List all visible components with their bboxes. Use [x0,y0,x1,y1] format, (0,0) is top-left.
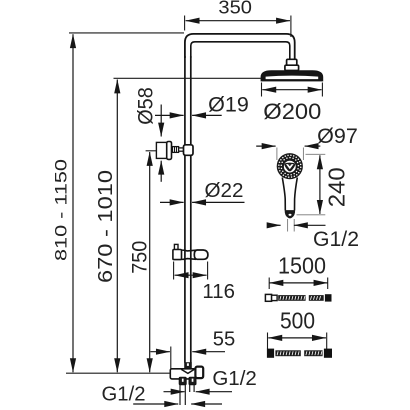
svg-text:670 - 1010: 670 - 1010 [95,170,117,283]
valve bottom nut right slit [192,379,194,382]
dimension 1500 arrow line [269,282,327,284]
hand shower holder middle top line [182,249,197,252]
shower arm inner contour [191,42,290,60]
hand shower handle tip [285,210,295,218]
svg-text:116: 116 [202,281,235,303]
hand shower holder middle bottom line [182,258,197,261]
overhead shower head top dome (dark) [261,71,322,81]
hose 1500 left fitting [265,294,271,301]
hose 500 left cap [267,349,274,358]
extension line Ø200 left [261,83,263,97]
main riser pipe right edge [190,56,192,363]
hand shower logo dark triangle [284,163,295,172]
overhead shower head bottom line [261,79,322,81]
dimension 55 right arrow [192,351,225,353]
bracket clip hatch 2 [176,147,178,153]
hand shower holder cup [194,250,208,259]
svg-text:G1/2: G1/2 [102,384,146,406]
hand shower tip highlight [289,214,292,216]
extension line 810-1150 top [69,32,184,34]
bracket rod bottom line [172,150,185,152]
svg-text:55: 55 [213,329,236,351]
dimension 240 extension bottom [297,214,326,216]
dimension 750 vertical line [149,152,151,372]
extension line 55 [170,347,172,369]
dimension row2 right arrow [191,403,222,405]
bracket clip [172,147,178,153]
dimension 55 left arrow [150,351,170,353]
valve body V-notch [181,369,194,373]
bracket slider block on pipe [184,145,194,156]
dimension 350 arrow line [186,20,290,22]
shower arm outer contour [185,34,295,60]
hand shower holder pin [174,244,178,249]
svg-text:1500: 1500 [278,253,326,279]
svg-text:Ø97: Ø97 [317,124,358,148]
tick 1500 left [268,278,270,290]
extension line Ø97 right [302,148,304,161]
svg-text:Ø200: Ø200 [263,99,321,124]
extension line 670-1010 top [114,77,262,79]
hand shower handle right edge [295,178,298,211]
hand shower holder left block [173,250,182,260]
hand shower center plate [284,161,296,173]
hand shower head disc [277,153,303,179]
bottom tube right line a [189,385,191,392]
valve bottom nut left [179,377,186,384]
extension line 116 right [207,262,209,280]
bracket rod top line [172,147,185,149]
dimension 810-1150 vertical line [72,34,74,372]
dimension row1 left arrow [164,391,185,393]
dimension Ø19 right arrow [192,114,222,116]
hose 1500 corrugated segment A [278,295,305,301]
hand shower spray dots outer ring [278,155,301,178]
tick 1500 right [327,278,329,290]
svg-text:Ø58: Ø58 [133,87,157,125]
dimension Ø58 up arrow [160,161,162,182]
extension line 116 left [173,262,175,280]
bottom tube left line a [179,385,181,405]
valve body [170,369,195,379]
shower head connector nut lower [285,65,299,70]
valve bottom nut right [189,377,196,384]
dimension 240 extension top [306,153,326,155]
extension line G1/2 handle left [287,219,289,232]
valve inlet nut [184,362,192,368]
valve inlet nut slit [187,363,189,366]
svg-text:500: 500 [280,308,315,334]
svg-text:240: 240 [323,167,349,207]
main riser pipe left edge [184,56,186,363]
hose 1500 corrugated segment B [309,295,324,301]
dimension G1/2 handle left arrow [270,224,281,226]
svg-text:G1/2: G1/2 [313,228,359,251]
hose 500 corrugated segment A [275,350,300,356]
svg-text:350: 350 [218,0,252,18]
dimension G1/2 handle right arrow [294,224,326,226]
hose 500 right cap [324,349,332,358]
extension line Ø200 right [321,83,323,97]
svg-text:Ø22: Ø22 [205,180,244,202]
dimension 500 arrow line [268,337,326,339]
dimension 116 arrow line [175,274,207,276]
dimension Ø200 arrow line [262,89,321,91]
dimension Ø97 right arrow [305,145,321,147]
bottom reference line [66,372,170,374]
bottom tube right line b [193,385,195,392]
tick 500 left [267,333,269,350]
svg-text:G1/2: G1/2 [212,367,257,390]
tick 500 right [326,333,328,350]
hose 500 corrugated segment B [304,350,322,356]
dimension Ø22 left arrow [160,201,184,203]
valve side outlet [195,367,203,379]
dimension 240 vertical line [319,155,321,214]
valve bottom nut left slit [182,379,184,382]
wall bracket body [156,142,167,158]
extension line 750 at bracket [146,150,157,152]
overhead shower head side band (white) [266,76,319,80]
wire: top extension line right (350 dim) [290,16,292,38]
dimension 670-1010 vertical line [116,80,118,373]
dimension row2 left arrow [133,403,178,405]
dimension Ø19 left arrow [155,114,184,116]
hose 1500 left fitting collar [272,295,278,300]
dimension Ø97 left arrow [256,145,275,147]
extension line G1/2 handle right [293,219,295,232]
bracket clip hatch [174,147,176,153]
wall bracket flange [167,142,172,160]
svg-text:750: 750 [127,241,151,274]
dimension Ø22 right arrow [192,201,244,203]
hand shower handle left edge [282,178,285,211]
dimension row1 right arrow [196,391,232,393]
shower head connector nut upper [287,59,297,65]
wire: top extension line left (350 dim) [184,16,186,31]
svg-text:Ø19: Ø19 [208,93,249,117]
bottom tube left line b [184,385,186,405]
svg-text:810 - 1150: 810 - 1150 [53,159,71,261]
hose 1500 right cap [325,294,332,301]
dimension Ø58 down arrow [160,105,162,137]
hand shower logo white triangle [286,164,294,169]
extension line Ø97 left [276,148,278,161]
hand shower logo center mark [288,164,292,166]
